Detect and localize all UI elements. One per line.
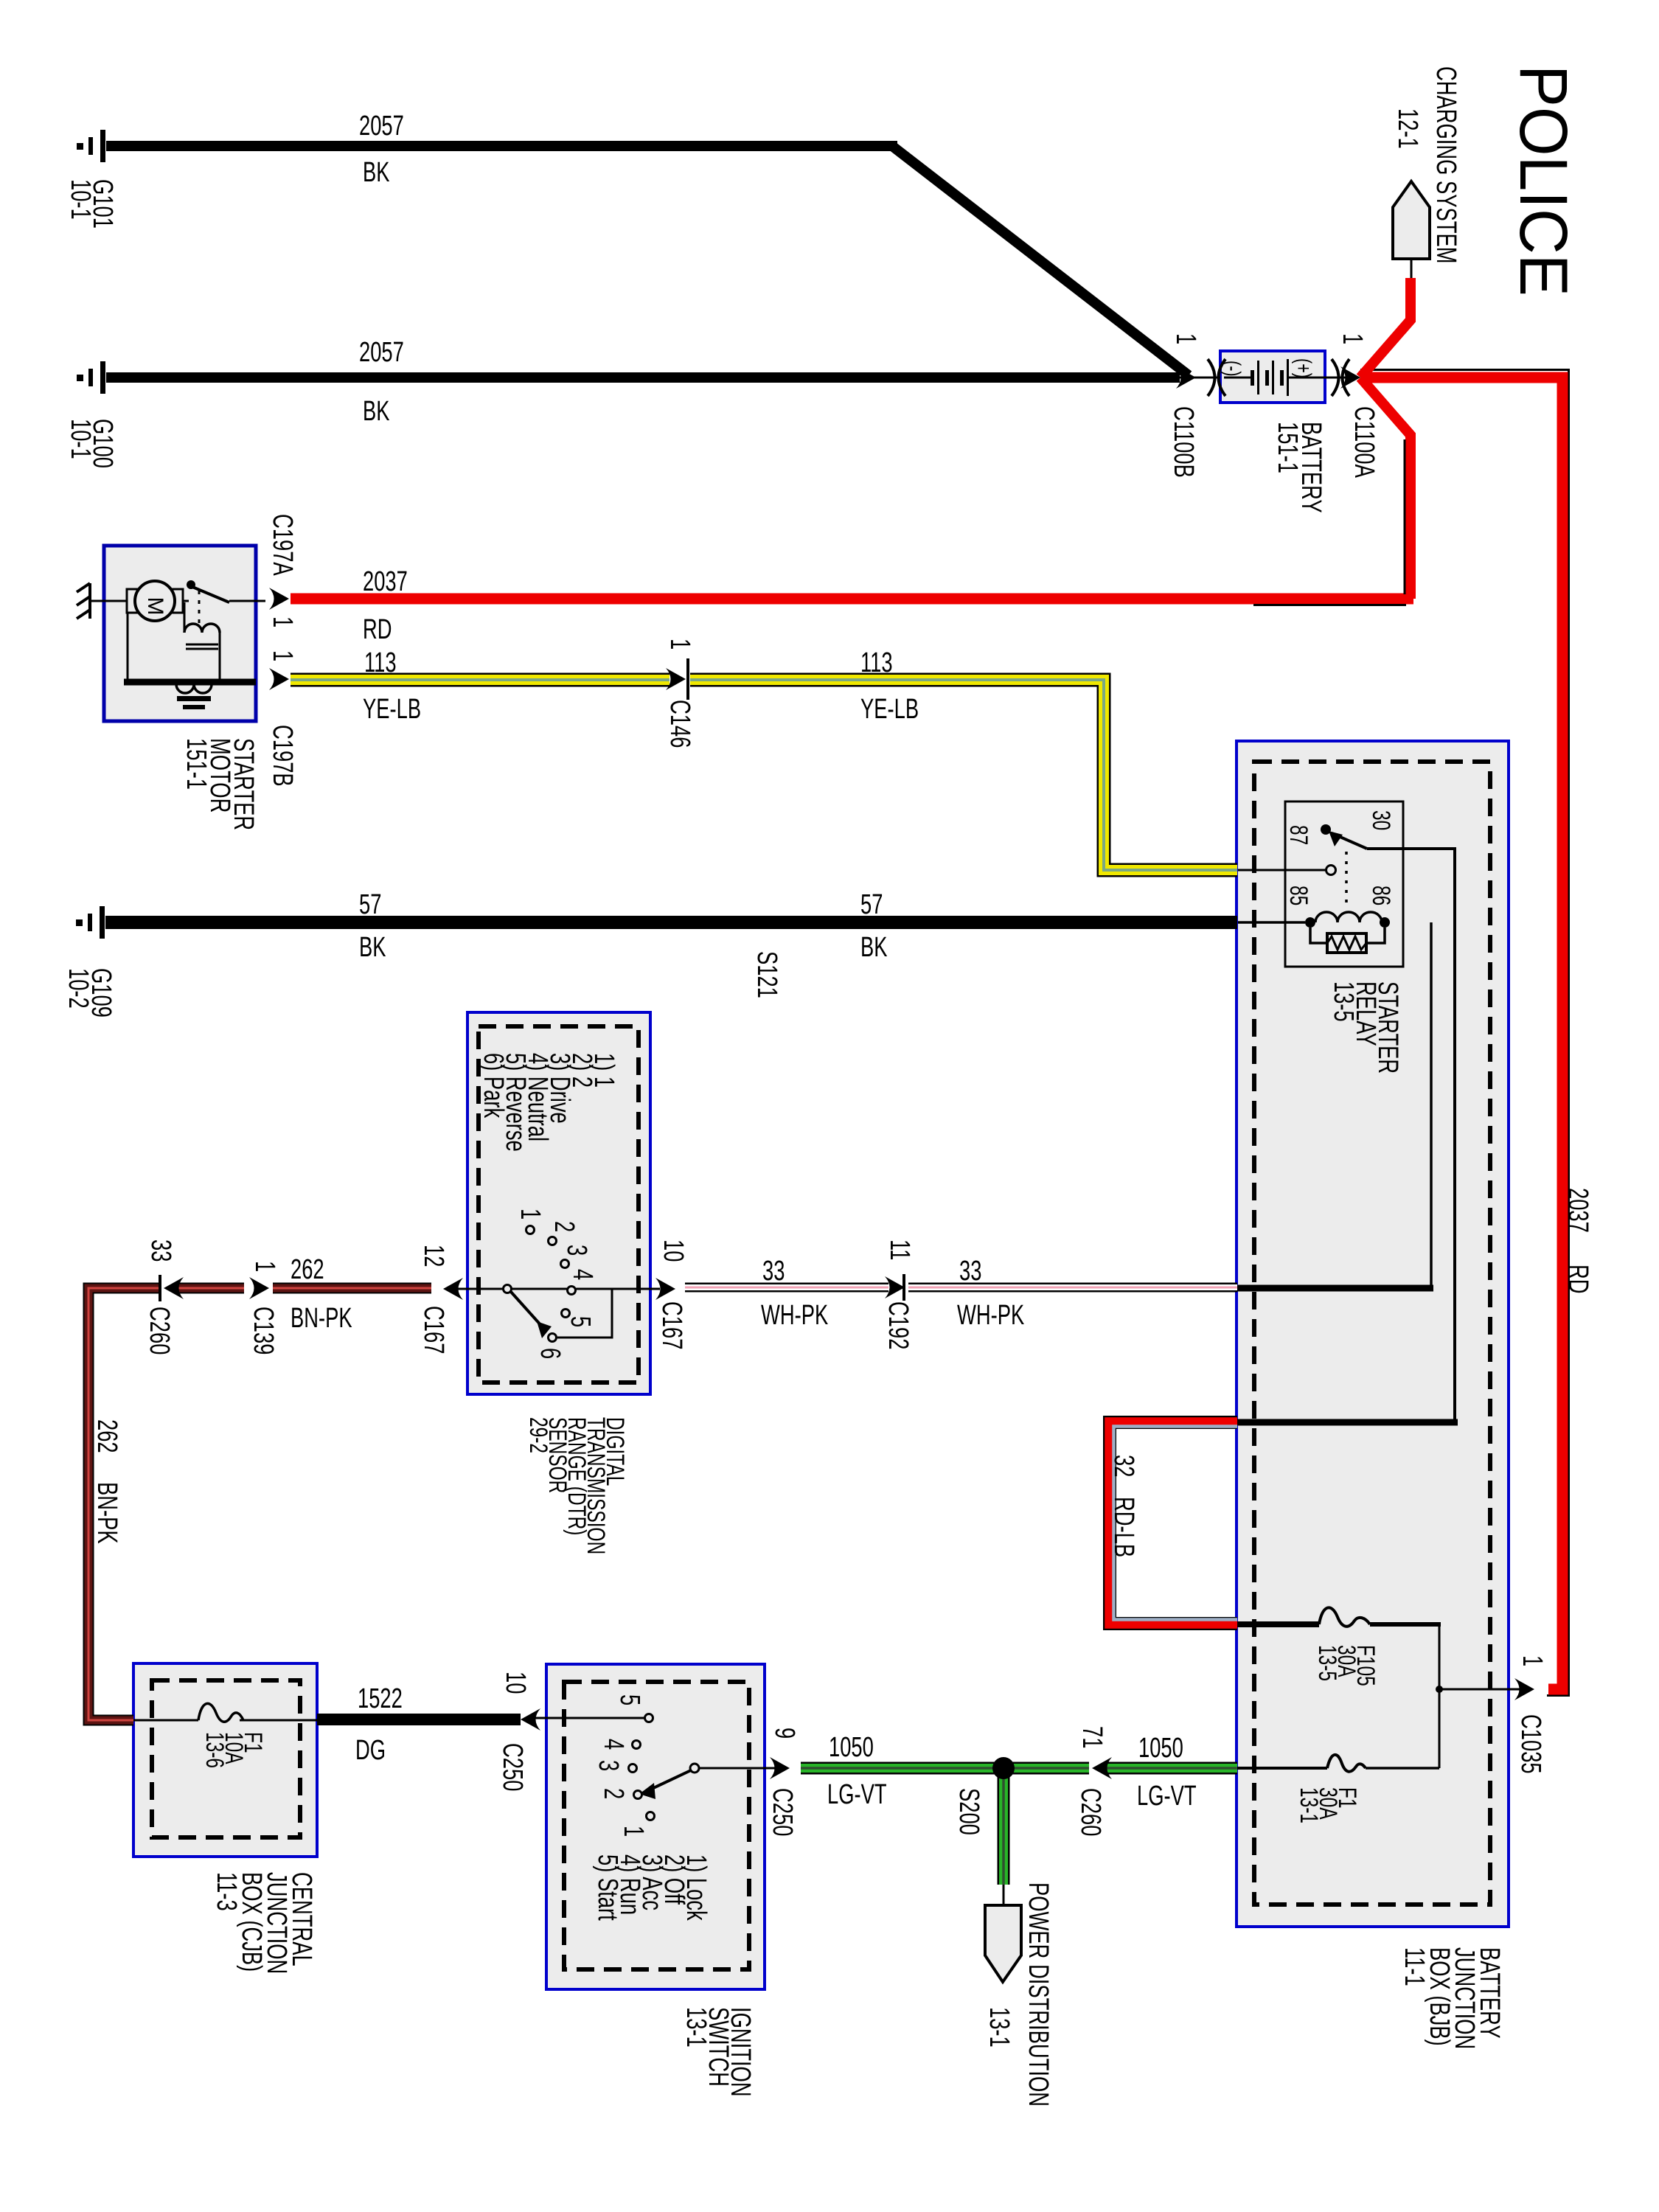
svg-text:1050: 1050 bbox=[829, 1732, 874, 1763]
svg-text:33: 33 bbox=[959, 1256, 981, 1287]
svg-text:13-6: 13-6 bbox=[201, 1732, 229, 1768]
svg-text:2057: 2057 bbox=[359, 337, 404, 368]
svg-text:10-1: 10-1 bbox=[65, 179, 96, 220]
svg-text:1: 1 bbox=[267, 616, 298, 627]
svg-text:33: 33 bbox=[762, 1256, 785, 1287]
svg-text:(-): (-) bbox=[1220, 361, 1245, 377]
svg-text:C167: C167 bbox=[656, 1301, 687, 1349]
svg-text:C260: C260 bbox=[144, 1307, 175, 1354]
svg-text:9: 9 bbox=[769, 1728, 800, 1739]
svg-text:30: 30 bbox=[1367, 810, 1395, 830]
svg-text:2037: 2037 bbox=[363, 566, 408, 597]
svg-text:1: 1 bbox=[249, 1261, 280, 1272]
svg-text:113: 113 bbox=[364, 647, 397, 678]
svg-text:5) Start: 5) Start bbox=[592, 1854, 623, 1921]
svg-text:57: 57 bbox=[860, 889, 883, 920]
svg-text:151-1: 151-1 bbox=[1272, 422, 1303, 473]
svg-text:C197A: C197A bbox=[267, 514, 298, 576]
svg-text:2057: 2057 bbox=[359, 111, 404, 142]
svg-text:10: 10 bbox=[658, 1239, 689, 1262]
svg-text:C250: C250 bbox=[497, 1743, 528, 1791]
svg-text:BK: BK bbox=[363, 157, 390, 188]
svg-text:6) Park: 6) Park bbox=[478, 1053, 509, 1119]
svg-text:1: 1 bbox=[1170, 333, 1201, 344]
svg-text:LG-VT: LG-VT bbox=[1137, 1781, 1197, 1812]
svg-text:1: 1 bbox=[1337, 333, 1368, 344]
svg-text:RD: RD bbox=[1562, 1265, 1593, 1294]
svg-text:1: 1 bbox=[267, 650, 298, 661]
svg-text:13-5: 13-5 bbox=[1328, 981, 1359, 1022]
svg-text:11-3: 11-3 bbox=[211, 1872, 242, 1911]
svg-text:S200: S200 bbox=[953, 1788, 984, 1835]
svg-text:151-1: 151-1 bbox=[181, 738, 212, 790]
svg-text:10-2: 10-2 bbox=[63, 968, 94, 1009]
svg-text:C1035: C1035 bbox=[1515, 1714, 1546, 1774]
svg-text:C139: C139 bbox=[248, 1307, 279, 1354]
svg-text:POWER DISTRIBUTION: POWER DISTRIBUTION bbox=[1023, 1882, 1054, 2107]
svg-text:87: 87 bbox=[1284, 825, 1312, 845]
svg-text:57: 57 bbox=[359, 889, 381, 920]
svg-text:YE-LB: YE-LB bbox=[363, 694, 421, 725]
svg-text:2: 2 bbox=[598, 1788, 629, 1799]
svg-text:YE-LB: YE-LB bbox=[860, 694, 919, 725]
svg-text:5: 5 bbox=[565, 1316, 596, 1327]
svg-text:2: 2 bbox=[549, 1221, 580, 1232]
svg-text:10-1: 10-1 bbox=[65, 419, 96, 459]
svg-text:1: 1 bbox=[618, 1826, 649, 1837]
svg-text:2037: 2037 bbox=[1562, 1188, 1593, 1233]
svg-text:C167: C167 bbox=[418, 1306, 449, 1354]
svg-text:11: 11 bbox=[884, 1239, 915, 1260]
svg-text:C192: C192 bbox=[883, 1301, 914, 1349]
svg-text:LG-VT: LG-VT bbox=[827, 1779, 887, 1810]
svg-text:POLICE: POLICE bbox=[1506, 65, 1582, 296]
svg-text:C197B: C197B bbox=[267, 725, 298, 787]
svg-text:10: 10 bbox=[500, 1672, 531, 1694]
svg-text:(+): (+) bbox=[1291, 358, 1316, 378]
svg-text:BK: BK bbox=[359, 932, 386, 963]
svg-text:1522: 1522 bbox=[358, 1683, 403, 1714]
svg-text:1050: 1050 bbox=[1138, 1733, 1183, 1764]
svg-text:1: 1 bbox=[1517, 1655, 1548, 1666]
svg-text:13-5: 13-5 bbox=[1313, 1645, 1341, 1681]
svg-text:29-2: 29-2 bbox=[524, 1417, 552, 1453]
svg-text:13-1: 13-1 bbox=[681, 2007, 712, 2048]
svg-text:85: 85 bbox=[1284, 886, 1312, 905]
svg-text:12-1: 12-1 bbox=[1392, 108, 1423, 149]
svg-text:5: 5 bbox=[614, 1694, 645, 1705]
svg-text:C1100B: C1100B bbox=[1168, 406, 1199, 478]
svg-text:33: 33 bbox=[145, 1239, 176, 1262]
svg-text:BN-PK: BN-PK bbox=[91, 1482, 122, 1544]
svg-text:262: 262 bbox=[91, 1419, 122, 1453]
svg-text:13-1: 13-1 bbox=[984, 2007, 1015, 2048]
svg-text:71: 71 bbox=[1077, 1726, 1107, 1748]
svg-text:C260: C260 bbox=[1075, 1788, 1106, 1836]
svg-text:13-1: 13-1 bbox=[1295, 1787, 1323, 1823]
svg-text:C1100A: C1100A bbox=[1349, 406, 1380, 479]
svg-text:CHARGING SYSTEM: CHARGING SYSTEM bbox=[1430, 66, 1461, 264]
svg-text:BK: BK bbox=[363, 396, 390, 427]
svg-text:3: 3 bbox=[561, 1245, 592, 1256]
svg-text:1: 1 bbox=[664, 639, 695, 650]
svg-text:WH-PK: WH-PK bbox=[761, 1300, 828, 1331]
svg-text:12: 12 bbox=[418, 1245, 449, 1267]
svg-text:C146: C146 bbox=[664, 700, 695, 748]
svg-text:RD: RD bbox=[363, 614, 392, 645]
svg-text:4: 4 bbox=[567, 1269, 598, 1280]
svg-text:32: 32 bbox=[1108, 1455, 1139, 1477]
svg-text:RD-LB: RD-LB bbox=[1108, 1497, 1139, 1557]
svg-text:11-1: 11-1 bbox=[1399, 1947, 1430, 1986]
svg-text:M: M bbox=[143, 597, 167, 616]
svg-text:S121: S121 bbox=[751, 951, 782, 998]
svg-text:1: 1 bbox=[515, 1208, 546, 1220]
svg-text:DG: DG bbox=[355, 1735, 386, 1766]
svg-text:6: 6 bbox=[535, 1348, 566, 1359]
svg-text:4: 4 bbox=[598, 1739, 629, 1750]
svg-text:262: 262 bbox=[291, 1254, 324, 1285]
svg-text:BK: BK bbox=[860, 932, 888, 963]
svg-text:113: 113 bbox=[860, 647, 893, 678]
svg-text:86: 86 bbox=[1367, 886, 1395, 905]
svg-text:WH-PK: WH-PK bbox=[957, 1300, 1024, 1331]
svg-text:C250: C250 bbox=[767, 1788, 798, 1836]
svg-text:BN-PK: BN-PK bbox=[291, 1303, 352, 1334]
svg-text:3: 3 bbox=[593, 1760, 624, 1771]
